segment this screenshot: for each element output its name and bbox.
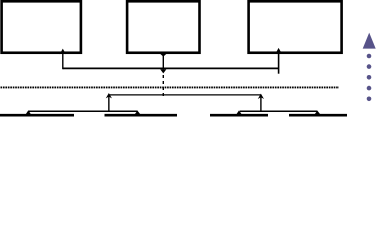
arrowhead into bus from below (at x=163) [160,69,166,73]
wire bus (horizontal line under boxes) [63,67,279,69]
beam line right (thin plane top line) [240,110,318,112]
ground bar A [0,114,74,117]
arrowhead into box1 [60,49,66,55]
support triangle T3 [235,110,242,115]
wire collector line (y=95) [109,94,261,96]
wire vertical box3 down past bus [278,52,280,74]
ground bar B [105,114,178,117]
wire vertical bus-to-box2 [162,52,164,69]
block box2 (top-middle rectangle) [127,1,199,52]
purple dot 3 [367,75,372,80]
wire vertical bus-to-box1 [62,52,64,69]
purple dot 2 [367,64,372,69]
wire vertical right plane to collector [260,96,262,112]
block box1 (top-left rectangle) [2,1,81,52]
support triangle T4 [314,111,322,116]
ground bar C [210,114,268,117]
wire dashed vertical (x=163) from bus to collector line [162,75,164,96]
boundary dotted line (full width) [1,86,340,88]
arrowhead into collector line left [106,93,112,98]
beam line left (thin plane top line) [29,110,138,112]
purple dot 1 [367,54,372,59]
wire vertical left plane to collector [108,96,110,112]
support triangle T2 [134,111,142,116]
arrowhead into collector line right [258,94,264,99]
arrowhead into box2 [160,54,166,57]
ground bar D [289,114,347,117]
purple dot 4 [367,86,372,91]
purple dot 5 [367,97,372,102]
arrowhead into box3 [276,48,282,54]
block box3 (top-right rectangle) [249,1,342,52]
purple arrowhead (right side, pointing up) [363,33,376,49]
support triangle T1 [25,110,32,115]
